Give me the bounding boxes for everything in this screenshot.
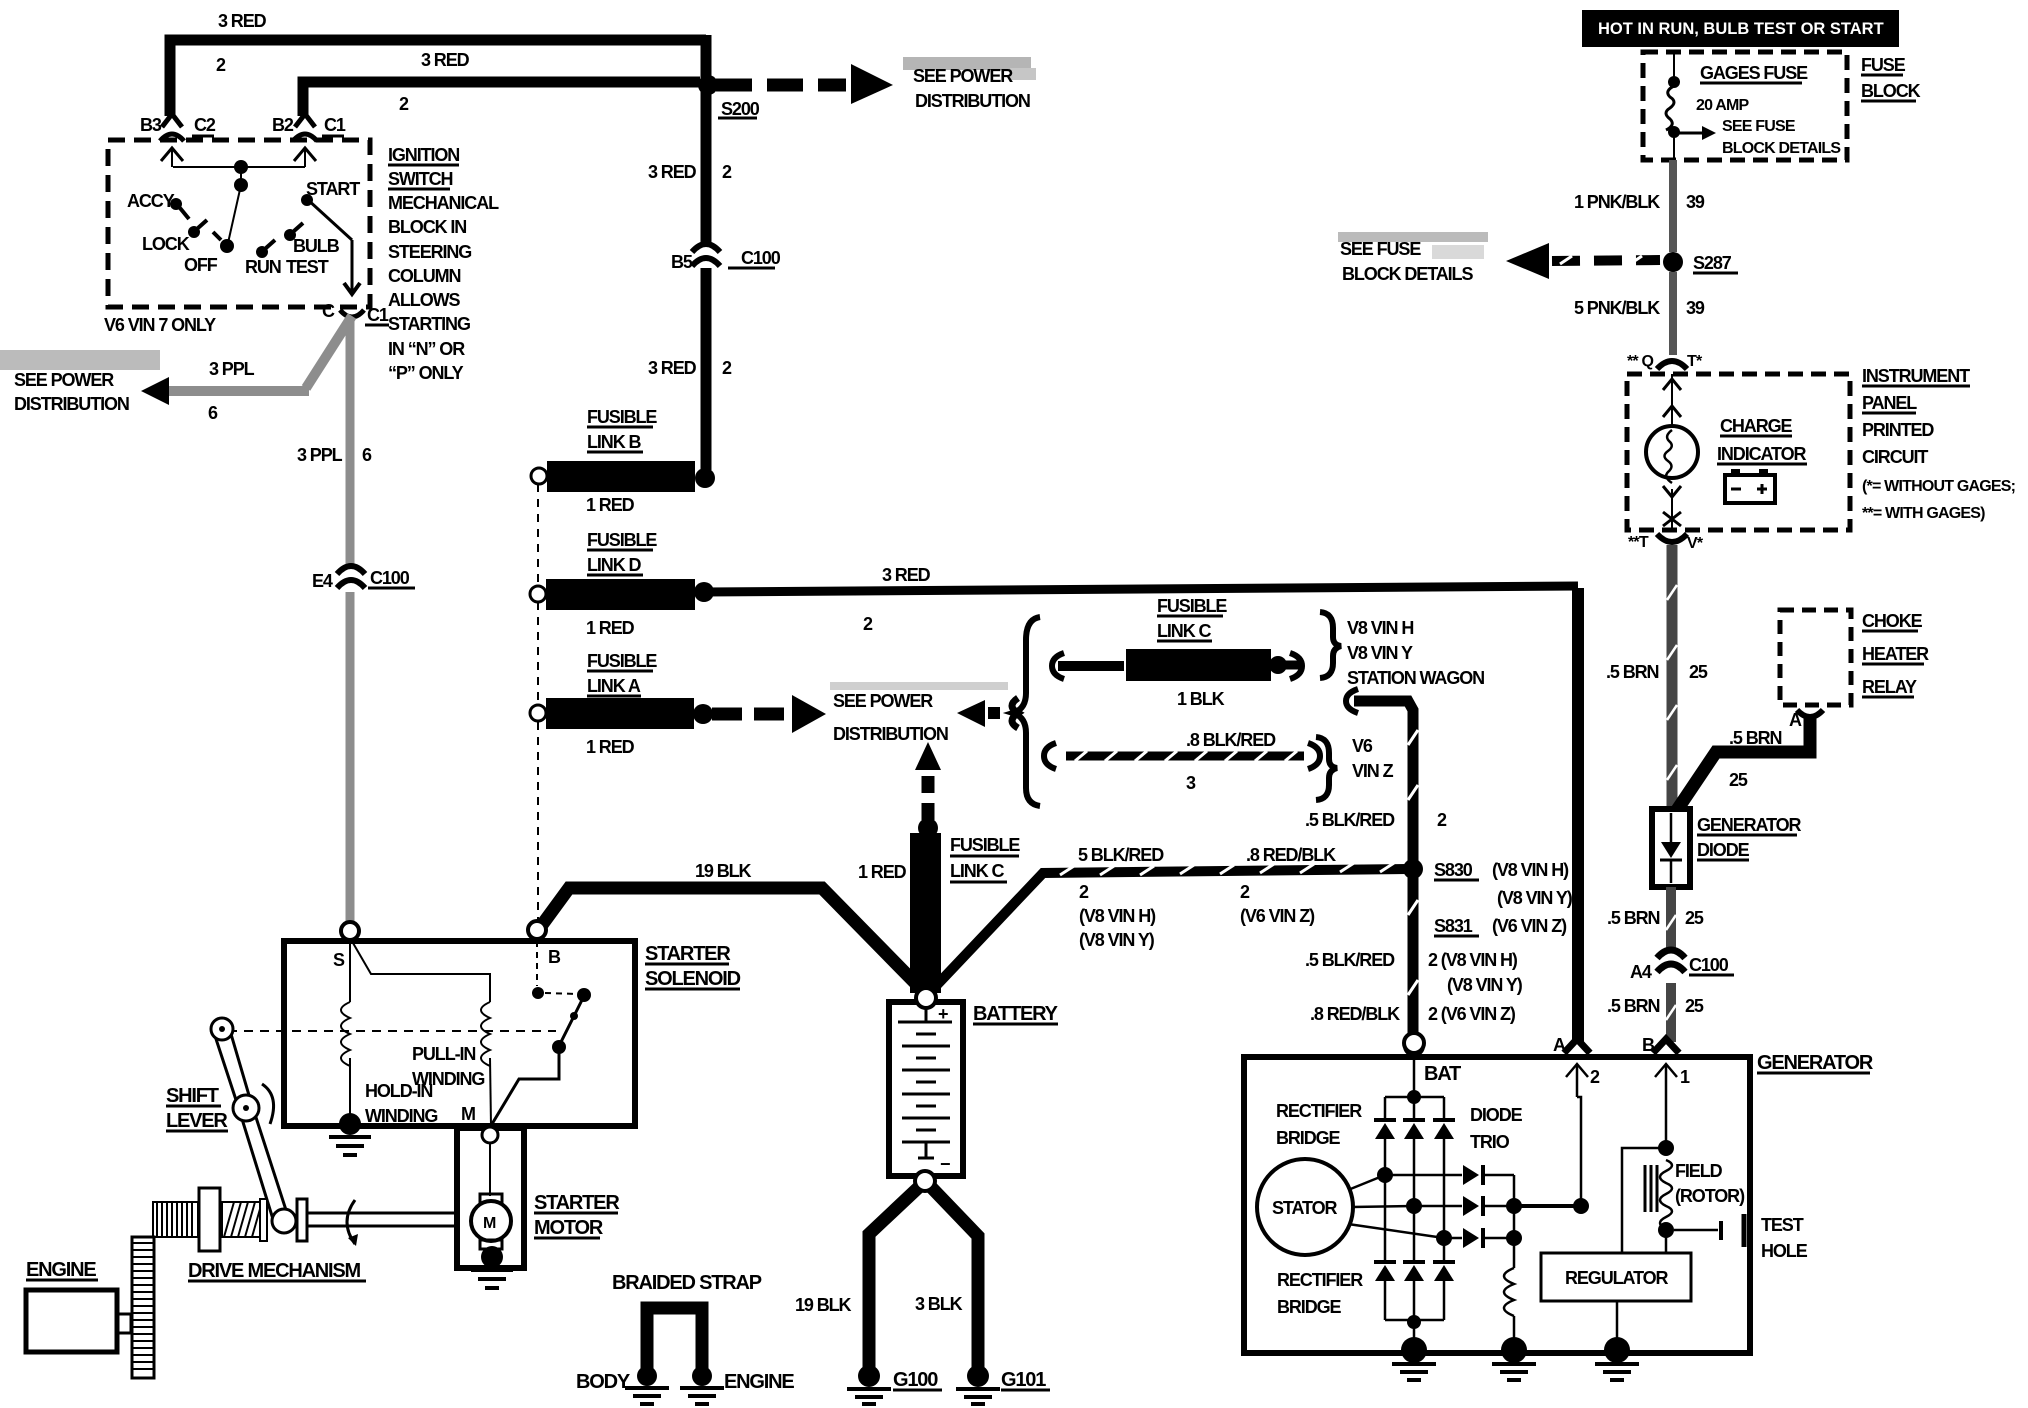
svg-text:B: B bbox=[548, 947, 561, 967]
svg-text:V6: V6 bbox=[1352, 736, 1373, 756]
svg-text:V6 VIN 7 ONLY: V6 VIN 7 ONLY bbox=[104, 315, 216, 335]
svg-text:IN “N” OR: IN “N” OR bbox=[388, 339, 465, 359]
svg-text:LINK C: LINK C bbox=[1157, 621, 1211, 641]
svg-text:G100: G100 bbox=[893, 1369, 938, 1391]
svg-text:FUSIBLE: FUSIBLE bbox=[1157, 596, 1227, 616]
svg-text:VIN Z: VIN Z bbox=[1352, 761, 1394, 781]
svg-text:BLOCK: BLOCK bbox=[1861, 81, 1921, 101]
svg-text:1 BLK: 1 BLK bbox=[1177, 689, 1225, 709]
svg-text:MECHANICAL: MECHANICAL bbox=[388, 193, 499, 213]
svg-text:BRIDGE: BRIDGE bbox=[1277, 1297, 1341, 1317]
svg-text:RECTIFIER: RECTIFIER bbox=[1276, 1101, 1362, 1121]
svg-text:3 RED: 3 RED bbox=[648, 358, 697, 378]
svg-text:6: 6 bbox=[362, 445, 372, 465]
svg-text:S831: S831 bbox=[1434, 916, 1473, 936]
svg-text:FUSIBLE: FUSIBLE bbox=[587, 651, 657, 671]
svg-text:S200: S200 bbox=[721, 99, 760, 119]
svg-text:25: 25 bbox=[1685, 908, 1704, 928]
svg-text:B3: B3 bbox=[140, 115, 162, 135]
svg-text:1 RED: 1 RED bbox=[586, 737, 635, 757]
svg-text:PRINTED: PRINTED bbox=[1862, 420, 1934, 440]
svg-text:.5 BLK/RED: .5 BLK/RED bbox=[1305, 810, 1395, 830]
svg-text:LEVER: LEVER bbox=[166, 1110, 228, 1132]
svg-text:**T: **T bbox=[1628, 534, 1649, 551]
svg-text:SEE POWER: SEE POWER bbox=[14, 370, 114, 390]
svg-text:LINK A: LINK A bbox=[587, 676, 641, 696]
svg-text:1: 1 bbox=[1680, 1067, 1690, 1087]
svg-text:ACCY: ACCY bbox=[127, 191, 175, 211]
svg-text:PANEL: PANEL bbox=[1862, 393, 1917, 413]
svg-text:20 AMP: 20 AMP bbox=[1696, 97, 1750, 114]
svg-text:2: 2 bbox=[722, 358, 732, 378]
svg-text:BLOCK DETAILS: BLOCK DETAILS bbox=[1342, 264, 1473, 284]
svg-text:.5 BRN: .5 BRN bbox=[1607, 908, 1660, 928]
svg-text:STARTING: STARTING bbox=[388, 314, 470, 334]
svg-text:2: 2 bbox=[1079, 882, 1089, 902]
svg-text:OFF: OFF bbox=[184, 255, 218, 275]
svg-text:BODY: BODY bbox=[576, 1371, 631, 1393]
svg-text:HEATER: HEATER bbox=[1862, 644, 1929, 664]
svg-text:2: 2 bbox=[399, 94, 409, 114]
svg-text:1 RED: 1 RED bbox=[586, 495, 635, 515]
svg-text:3 PPL: 3 PPL bbox=[297, 445, 343, 465]
svg-text:+: + bbox=[938, 1004, 948, 1024]
svg-text:SEE POWER: SEE POWER bbox=[913, 66, 1013, 86]
svg-text:.8 RED/BLK: .8 RED/BLK bbox=[1310, 1004, 1400, 1024]
svg-text:C100: C100 bbox=[370, 568, 410, 588]
svg-text:E4: E4 bbox=[312, 571, 333, 591]
svg-text:BLOCK DETAILS: BLOCK DETAILS bbox=[1722, 140, 1841, 157]
svg-text:(V8 VIN H): (V8 VIN H) bbox=[1079, 906, 1156, 926]
svg-text:1 RED: 1 RED bbox=[586, 618, 635, 638]
svg-text:SWITCH: SWITCH bbox=[388, 169, 452, 189]
svg-text:FIELD: FIELD bbox=[1675, 1161, 1723, 1181]
svg-text:IGNITION: IGNITION bbox=[388, 145, 459, 165]
svg-text:.8 BLK/RED: .8 BLK/RED bbox=[1186, 730, 1276, 750]
svg-text:CIRCUIT: CIRCUIT bbox=[1862, 447, 1928, 467]
svg-text:1 RED: 1 RED bbox=[858, 862, 907, 882]
svg-text:PULL-IN: PULL-IN bbox=[412, 1044, 475, 1064]
svg-text:(V8 VIN H): (V8 VIN H) bbox=[1492, 860, 1569, 880]
svg-text:S: S bbox=[333, 950, 345, 970]
svg-text:C1: C1 bbox=[367, 305, 389, 325]
svg-text:S287: S287 bbox=[1693, 253, 1732, 273]
svg-text:INSTRUMENT: INSTRUMENT bbox=[1862, 366, 1970, 386]
svg-text:ENGINE: ENGINE bbox=[724, 1371, 794, 1393]
svg-text:DISTRIBUTION: DISTRIBUTION bbox=[833, 724, 948, 744]
svg-text:SEE FUSE: SEE FUSE bbox=[1722, 118, 1796, 135]
svg-text:RUN: RUN bbox=[245, 257, 281, 277]
svg-text:TEST: TEST bbox=[286, 257, 329, 277]
svg-text:BLOCK IN: BLOCK IN bbox=[388, 217, 466, 237]
svg-text:FUSIBLE: FUSIBLE bbox=[950, 835, 1020, 855]
svg-text:G101: G101 bbox=[1001, 1369, 1046, 1391]
svg-text:(*= WITHOUT GAGES;: (*= WITHOUT GAGES; bbox=[1862, 478, 2015, 495]
svg-text:(V6 VIN Z): (V6 VIN Z) bbox=[1492, 916, 1567, 936]
svg-text:(ROTOR): (ROTOR) bbox=[1675, 1186, 1745, 1206]
svg-text:M: M bbox=[483, 1215, 496, 1232]
svg-text:LINK C: LINK C bbox=[950, 861, 1004, 881]
svg-text:−: − bbox=[940, 1154, 950, 1174]
svg-text:2 (V6 VIN Z): 2 (V6 VIN Z) bbox=[1428, 1004, 1516, 1024]
svg-text:FUSIBLE: FUSIBLE bbox=[587, 530, 657, 550]
svg-text:CHARGE: CHARGE bbox=[1720, 416, 1792, 436]
svg-text:3 BLK: 3 BLK bbox=[915, 1294, 963, 1314]
svg-text:RECTIFIER: RECTIFIER bbox=[1277, 1270, 1363, 1290]
svg-text:** Q: ** Q bbox=[1627, 353, 1653, 370]
svg-text:RELAY: RELAY bbox=[1862, 677, 1917, 697]
svg-text:C: C bbox=[322, 301, 335, 321]
svg-text:25: 25 bbox=[1729, 770, 1748, 790]
svg-text:3 RED: 3 RED bbox=[882, 565, 931, 585]
svg-text:5 PNK/BLK: 5 PNK/BLK bbox=[1574, 298, 1660, 318]
svg-text:2: 2 bbox=[216, 55, 226, 75]
svg-text:6: 6 bbox=[208, 403, 218, 423]
svg-text:2: 2 bbox=[1240, 882, 1250, 902]
svg-text:FUSIBLE: FUSIBLE bbox=[587, 407, 657, 427]
svg-text:DISTRIBUTION: DISTRIBUTION bbox=[14, 394, 129, 414]
svg-text:2: 2 bbox=[1437, 810, 1447, 830]
svg-text:.8 RED/BLK: .8 RED/BLK bbox=[1246, 845, 1336, 865]
svg-text:V*: V* bbox=[1687, 535, 1704, 552]
svg-text:B5: B5 bbox=[671, 252, 693, 272]
svg-text:SEE FUSE: SEE FUSE bbox=[1340, 239, 1421, 259]
svg-text:GENERATOR: GENERATOR bbox=[1697, 815, 1802, 835]
svg-text:V8 VIN Y: V8 VIN Y bbox=[1347, 643, 1413, 663]
svg-text:C2: C2 bbox=[194, 115, 216, 135]
svg-text:39: 39 bbox=[1686, 192, 1705, 212]
svg-text:GENERATOR: GENERATOR bbox=[1757, 1052, 1874, 1074]
svg-text:ENGINE: ENGINE bbox=[26, 1259, 96, 1281]
svg-text:START: START bbox=[306, 179, 360, 199]
svg-text:S830: S830 bbox=[1434, 860, 1473, 880]
svg-text:V8 VIN H: V8 VIN H bbox=[1347, 618, 1413, 638]
svg-text:LINK D: LINK D bbox=[587, 555, 641, 575]
svg-text:STARTER: STARTER bbox=[645, 943, 731, 965]
svg-text:SOLENOID: SOLENOID bbox=[645, 968, 741, 990]
svg-text:CHOKE: CHOKE bbox=[1862, 611, 1923, 631]
svg-text:(V6 VIN Z): (V6 VIN Z) bbox=[1240, 906, 1315, 926]
svg-text:3: 3 bbox=[1186, 773, 1196, 793]
svg-text:3 RED: 3 RED bbox=[648, 162, 697, 182]
svg-text:19 BLK: 19 BLK bbox=[795, 1295, 852, 1315]
svg-text:BULB: BULB bbox=[293, 236, 340, 256]
svg-text:C100: C100 bbox=[1689, 955, 1729, 975]
svg-text:BAT: BAT bbox=[1424, 1063, 1461, 1085]
svg-text:SHIFT: SHIFT bbox=[166, 1085, 219, 1107]
svg-text:2: 2 bbox=[863, 614, 873, 634]
svg-text:GAGES FUSE: GAGES FUSE bbox=[1700, 63, 1808, 83]
svg-text:A4: A4 bbox=[1630, 962, 1652, 982]
svg-text:M: M bbox=[461, 1104, 475, 1124]
svg-text:COLUMN: COLUMN bbox=[388, 266, 460, 286]
svg-text:HOLD-IN: HOLD-IN bbox=[365, 1081, 432, 1101]
svg-text:3 RED: 3 RED bbox=[218, 11, 267, 31]
svg-text:DISTRIBUTION: DISTRIBUTION bbox=[915, 91, 1030, 111]
svg-text:.5 BRN: .5 BRN bbox=[1729, 728, 1782, 748]
svg-text:BATTERY: BATTERY bbox=[973, 1003, 1059, 1025]
svg-text:WINDING: WINDING bbox=[365, 1106, 437, 1126]
svg-text:25: 25 bbox=[1685, 996, 1704, 1016]
svg-text:3 RED: 3 RED bbox=[421, 50, 470, 70]
svg-text:INDICATOR: INDICATOR bbox=[1717, 444, 1807, 464]
svg-text:FUSE: FUSE bbox=[1861, 55, 1906, 75]
svg-text:3 PPL: 3 PPL bbox=[209, 359, 255, 379]
svg-text:REGULATOR: REGULATOR bbox=[1565, 1268, 1669, 1288]
svg-text:5 BLK/RED: 5 BLK/RED bbox=[1078, 845, 1164, 865]
svg-text:25: 25 bbox=[1689, 662, 1708, 682]
svg-text:(V8 VIN Y): (V8 VIN Y) bbox=[1079, 930, 1155, 950]
svg-text:TEST: TEST bbox=[1761, 1215, 1804, 1235]
svg-text:HOLE: HOLE bbox=[1761, 1241, 1808, 1261]
svg-text:(V8 VIN Y): (V8 VIN Y) bbox=[1447, 975, 1523, 995]
svg-text:STARTER: STARTER bbox=[534, 1192, 620, 1214]
svg-text:BRIDGE: BRIDGE bbox=[1276, 1128, 1340, 1148]
svg-text:STEERING: STEERING bbox=[388, 242, 471, 262]
svg-text:SEE POWER: SEE POWER bbox=[833, 691, 933, 711]
svg-text:.5 BLK/RED: .5 BLK/RED bbox=[1305, 950, 1395, 970]
svg-text:T*: T* bbox=[1687, 353, 1703, 370]
svg-text:(V8 VIN Y): (V8 VIN Y) bbox=[1497, 888, 1573, 908]
svg-text:2: 2 bbox=[1590, 1067, 1600, 1087]
svg-text:C100: C100 bbox=[741, 248, 781, 268]
svg-text:2 (V8 VIN H): 2 (V8 VIN H) bbox=[1428, 950, 1518, 970]
svg-text:ALLOWS: ALLOWS bbox=[388, 290, 460, 310]
svg-text:39: 39 bbox=[1686, 298, 1705, 318]
svg-text:STATOR: STATOR bbox=[1272, 1198, 1337, 1218]
svg-text:LOCK: LOCK bbox=[142, 234, 190, 254]
svg-text:DIODE: DIODE bbox=[1697, 840, 1750, 860]
svg-text:DIODE: DIODE bbox=[1470, 1105, 1523, 1125]
svg-text:2: 2 bbox=[722, 162, 732, 182]
svg-text:.5 BRN: .5 BRN bbox=[1606, 662, 1659, 682]
svg-text:HOT IN RUN, BULB TEST OR START: HOT IN RUN, BULB TEST OR START bbox=[1598, 20, 1884, 38]
svg-text:MOTOR: MOTOR bbox=[534, 1217, 604, 1239]
svg-text:STATION WAGON: STATION WAGON bbox=[1347, 668, 1484, 688]
svg-text:BRAIDED STRAP: BRAIDED STRAP bbox=[612, 1272, 762, 1294]
svg-text:LINK B: LINK B bbox=[587, 432, 641, 452]
svg-text:“P” ONLY: “P” ONLY bbox=[388, 363, 464, 383]
svg-text:.5 BRN: .5 BRN bbox=[1607, 996, 1660, 1016]
svg-text:**= WITH GAGES): **= WITH GAGES) bbox=[1862, 505, 1985, 522]
svg-text:B2: B2 bbox=[272, 115, 294, 135]
svg-text:TRIO: TRIO bbox=[1470, 1132, 1510, 1152]
svg-text:19 BLK: 19 BLK bbox=[695, 861, 752, 881]
svg-text:1 PNK/BLK: 1 PNK/BLK bbox=[1574, 192, 1660, 212]
svg-text:DRIVE MECHANISM: DRIVE MECHANISM bbox=[188, 1260, 361, 1282]
svg-text:C1: C1 bbox=[324, 115, 346, 135]
